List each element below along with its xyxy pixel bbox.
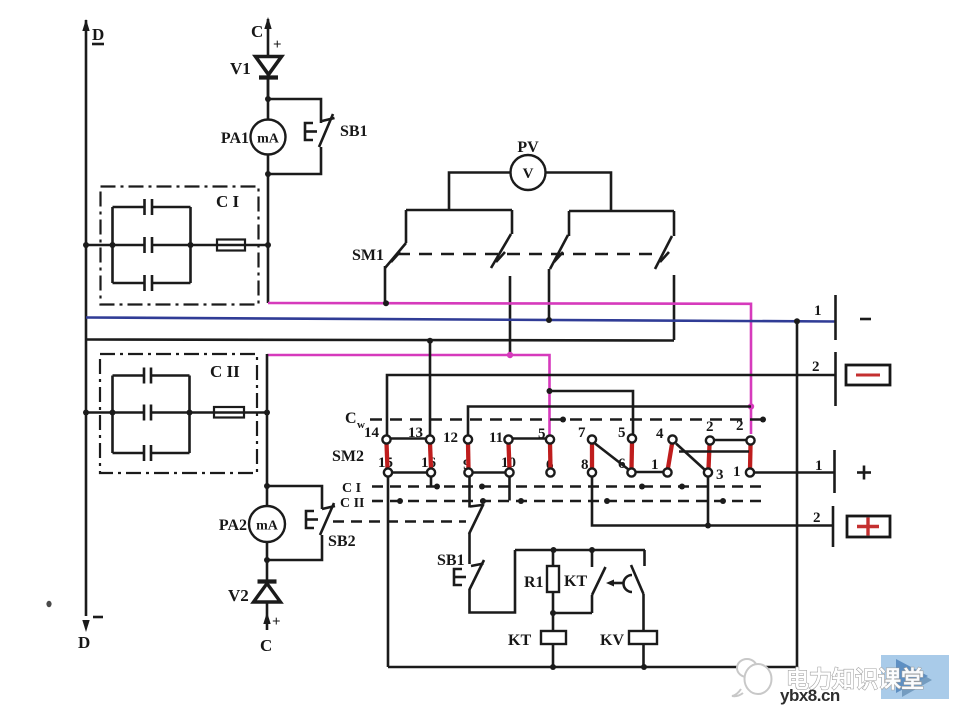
svg-text:1: 1 [651,457,659,473]
node junction terminal 3 on 2plus line [705,523,711,529]
meter PA2 (mA) [219,506,285,542]
svg-text:3: 3 [716,467,724,483]
node junction SM1 contact1 on magenta bus [383,300,389,306]
svg-text:V2: V2 [228,586,249,605]
wire magenta bus from C I output [268,303,751,434]
node junctions on C II line [83,410,270,416]
node junction above PA2 [264,483,270,489]
switch SM1 contact 3 [549,211,569,321]
coil KT [508,613,566,667]
wire riser from blue bus down to bottom rail [796,321,799,667]
node junction below PA2 [264,557,270,563]
node junction riser on blue bus [794,318,800,324]
wire SB1 parallel branch bottom [268,147,321,174]
node junction R1 on top rail [551,547,557,553]
svg-text:D: D [78,633,90,652]
wire chord terminals 6b-1 [635,471,664,474]
svg-text:SB1: SB1 [437,552,465,569]
meter PA1 (mA) [221,120,286,155]
node junction KV coil on bottom rail [641,664,647,670]
SM1 mechanical link dashed [397,253,658,256]
svg-text:1: 1 [733,464,741,480]
wire SB2 parallel branch top [267,486,322,509]
svg-text:ybx8.cn: ybx8.cn [780,686,840,705]
svg-text:2: 2 [706,419,714,435]
SM2 terminal number labels row 1 [364,418,744,446]
node junction at R1 bottom [550,610,556,616]
SM2 terminal number labels row 2 [378,455,741,483]
svg-text:C I: C I [216,192,240,211]
C II inner box left/right verticals [113,376,190,454]
switch SM1 contact 4 [655,211,674,340]
svg-text:1: 1 [814,303,822,319]
svg-text:PA1: PA1 [221,130,249,147]
pushbutton SB1 [305,114,368,147]
SB2 mechanical dashed link [333,520,466,523]
svg-text:+: + [272,614,281,630]
node magenta junction SM1 contact2 [507,352,513,358]
svg-text:C: C [260,636,272,655]
wire SB1 parallel branch top [268,99,321,123]
pushbutton SB1 lower [437,552,484,590]
wire PV right lead [545,173,612,212]
contact KT time-delay [564,550,632,613]
busbar 1 minus [814,295,871,340]
svg-text:7: 7 [578,425,586,441]
wire diagonal terminal 4 to 3 [676,444,705,470]
wire terminal 15 drop to bottom rail [387,477,390,667]
Cw mechanical dashed line [370,418,764,421]
svg-text:2: 2 [812,359,820,375]
red plus indicator box [847,516,890,537]
wire terminal 3 drop [707,477,710,526]
wire terminal 10 drop [508,477,511,501]
wire relay circuit top rail [515,549,645,552]
svg-text:C I: C I [342,481,361,496]
node junction below PA1 [265,171,271,177]
svg-text:D: D [92,25,104,44]
wire SB1 bottom to riser [470,550,516,613]
wire terminal 12 riser and line to magenta junction [468,407,751,436]
C I position dashed row [342,481,762,496]
wire C I middle horizontal [86,244,268,247]
wire terminal 13 riser [429,341,432,435]
wire black line D to SM1 contact4 [86,340,674,341]
node junction terminal13 riser on black line [427,338,433,344]
capacitor C I bottom branch [113,275,191,291]
node D label bottom with minus [78,617,103,652]
Cw label [345,410,365,431]
wire chord terminals 11-5 [512,437,546,440]
svg-text:mA: mA [256,519,279,534]
wire V2 lower lead [266,560,269,581]
node junction KT coil on bottom rail [550,664,556,670]
svg-text:PA2: PA2 [219,517,247,534]
watermark mascot [732,659,772,696]
svg-text:2: 2 [736,418,744,434]
resistor R1 [524,550,559,613]
coil KV [600,631,657,667]
wire terminal 16 drop [430,477,433,487]
node D feeder line [82,19,89,632]
wire blue bus D to busbar 1minus [86,318,835,322]
svg-text:PV: PV [517,139,539,156]
wire tap to terminal 5b [550,391,634,435]
watermark blue play button [881,655,949,699]
svg-text:V: V [523,166,534,182]
svg-text:+: + [273,37,282,53]
voltmeter PV [511,139,546,190]
wire R1 bottom to KT contact bottom [553,612,592,615]
wire C II middle horizontal [86,411,267,414]
red minus indicator box [846,365,890,385]
wire chord terminals 15-16 [391,471,427,474]
busbar 2 plus [813,506,833,547]
SM2 terminal circles row 1 [382,434,754,444]
svg-text:SB1: SB1 [340,123,368,140]
node junction SM1 contact3 on blue bus [546,317,552,323]
stray scan mark [46,601,51,607]
svg-text:R1: R1 [524,574,544,591]
svg-text:SM1: SM1 [352,247,384,264]
fuse C I [217,240,245,251]
C II position dashed row [340,496,766,511]
svg-text:KV: KV [600,632,624,649]
auxiliary contact above SB1 [469,504,484,564]
svg-text:C: C [251,22,263,41]
capacitor C II bottom branch [113,445,190,461]
node C feeder line top [251,17,282,100]
svg-text:C: C [345,410,357,427]
node junction KT contact on top rail [589,547,595,553]
svg-text:C II: C II [210,362,240,381]
busbar 2 minus [812,352,836,406]
wire PV left lead [449,173,512,211]
svg-text:4: 4 [656,426,664,442]
svg-text:KT: KT [508,632,531,649]
wire terminal 1 to busbar 1plus [754,471,834,474]
svg-text:11: 11 [489,430,503,446]
wire terminal 14 riser and line to busbar 2minus [387,375,836,435]
wire C II column vertical [266,354,269,560]
node dot at right end of Cw line [760,417,766,423]
SM2 closed-contact red marks [387,443,751,470]
fuse C II [214,407,244,418]
wire terminal 8 drop and line to busbar 2plus [592,477,833,526]
node C terminal bottom with arrow and plus [260,602,281,655]
pushbutton SB2 [306,503,356,550]
svg-text:mA: mA [257,132,280,147]
svg-text:SB2: SB2 [328,533,356,550]
capacitor C II middle [144,405,151,421]
wire chord terminals 9-10 [472,471,506,474]
wire C line from V1 down to magenta bus corner [267,77,270,303]
C I inner box left/right verticals [113,207,191,283]
node junctions on C I line [83,242,271,248]
svg-text:C II: C II [340,496,365,511]
wire terminal 9 drop [468,477,471,508]
wire diagonal terminal 7 to 6b [595,444,629,470]
node junction above PA1 [265,96,271,102]
wire chord terminals 2-2 [713,439,747,442]
node dot on Cw line [560,417,566,423]
svg-text:14: 14 [364,425,380,441]
wire bottom rail [388,666,797,669]
capacitor bank box C I outer dash-dot border [101,187,259,305]
svg-text:V1: V1 [230,59,251,78]
contact KV [631,550,645,631]
capacitor C I top branch [113,199,191,215]
SM2 terminal circles row 2 [384,468,754,476]
node D label top [92,25,104,44]
capacitor bank box C II outer dash-dot border [100,354,257,473]
busbar 1 plus [815,450,871,493]
svg-text:SM2: SM2 [332,448,364,465]
svg-text:12: 12 [443,430,458,446]
node magenta junction at line to terminal 12 [748,403,754,409]
diode V1 [230,57,282,79]
switch SM1 right pole top rail [569,210,674,213]
diode V2 [228,582,281,606]
svg-text:5: 5 [618,425,626,441]
wire magenta bus from C II output [267,355,550,436]
capacitor C II top branch [113,368,190,384]
wire link from diagonal to column 2-1 [679,450,749,453]
svg-text:2: 2 [813,510,821,526]
switch SM1 left pole top rail [406,209,512,212]
switch SM1 contact 2 [491,210,512,355]
node junction tap to terminal 5b [547,388,553,394]
switch SM1 contact 1 [385,210,406,304]
wire chord terminals 14-13 [390,437,426,440]
wire SB2 parallel branch bottom [267,535,322,560]
capacitor C I middle [145,237,153,253]
svg-text:KT: KT [564,573,587,590]
SM1 blade tick marks [391,252,669,262]
